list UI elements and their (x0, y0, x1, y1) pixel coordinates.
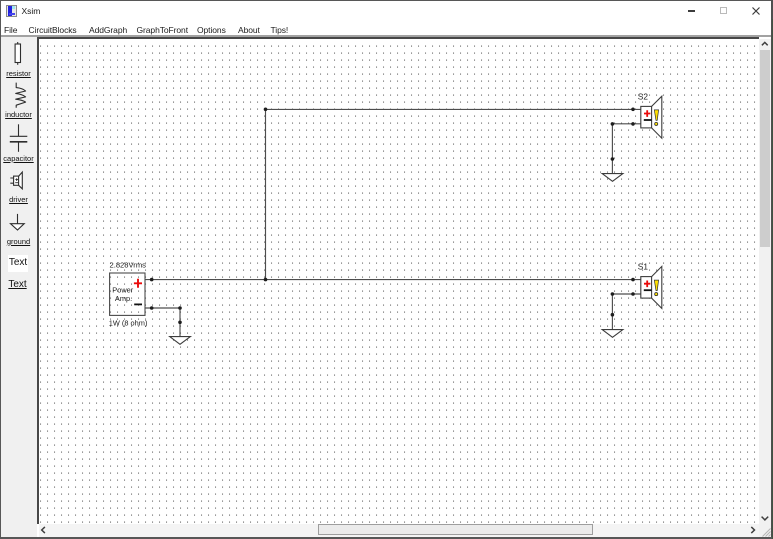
svg-text:Amp.: Amp. (115, 294, 132, 303)
svg-text:2.828Vrms: 2.828Vrms (110, 260, 147, 269)
svg-text:S2: S2 (638, 91, 649, 101)
svg-text:1W (8 ohm): 1W (8 ohm) (109, 318, 148, 327)
svg-text:S1: S1 (638, 262, 649, 272)
